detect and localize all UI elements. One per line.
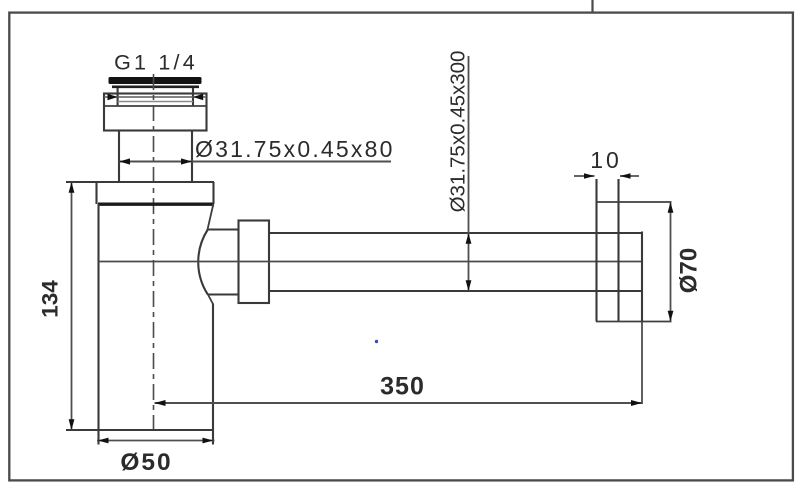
body flange left edge: [95, 182, 97, 204]
dim arrow right (tip at tailpipe right): [181, 158, 192, 164]
body flange top line with 134 extension: [66, 181, 214, 183]
svg-text:Ø31.75x0.45x300: Ø31.75x0.45x300: [447, 51, 470, 213]
wall flange bottom edge with Ø70 extension: [596, 321, 672, 323]
svg-text:Ø50: Ø50: [120, 449, 172, 476]
svg-text:Ø31.75x0.45x80: Ø31.75x0.45x80: [195, 136, 395, 162]
body left edge: [97, 204, 99, 445]
svg-text:Ø70: Ø70: [676, 248, 703, 293]
dim 134 arrow up: [69, 182, 75, 193]
cap washer line: [112, 86, 199, 89]
dim Ø31.75x0.45x300 vertical line: [468, 56, 470, 291]
dim 134 line: [71, 182, 73, 430]
dim Ø50 arrow left: [98, 438, 109, 444]
body flange thick bottom line: [98, 202, 213, 205]
tailpipe left edge: [118, 131, 120, 183]
olive upper slant: [207, 206, 213, 231]
dim 350 arrow right: [631, 400, 642, 406]
dim Ø50 arrow right: [203, 438, 214, 444]
olive left arc: [198, 230, 208, 295]
svg-text:10: 10: [590, 147, 622, 173]
body right edge upper: [212, 204, 214, 207]
thread root line: [118, 101, 193, 103]
tailpipe right edge: [191, 131, 193, 183]
dim arrow up (pipe top): [466, 233, 472, 244]
vertical centerline (dashed): [153, 74, 155, 430]
dim 134 arrow down: [69, 419, 75, 430]
extension line to 350 dim: [641, 322, 643, 404]
dim Ø50 line: [97, 440, 215, 442]
svg-text:134: 134: [38, 280, 63, 318]
body flange right edge: [212, 182, 214, 204]
dim Ø70 line: [670, 202, 672, 322]
pipe bottom edge: [269, 290, 642, 292]
dim 350 line: [155, 402, 643, 404]
wall flange back face: [617, 179, 619, 322]
body right edge lower: [212, 304, 214, 445]
pipe centerline: [99, 261, 643, 263]
olive lower slant: [207, 294, 213, 305]
thread dim arrow left: [108, 94, 118, 100]
dim 10 arrow left: [584, 173, 595, 179]
svg-text:G1 1/4: G1 1/4: [114, 51, 198, 75]
wall flange top edge with Ø70 extension: [596, 201, 672, 203]
dim line Ø31.75x0.45x80: [119, 161, 391, 163]
cap top black bar: [109, 77, 202, 84]
cap neck right edge: [192, 88, 194, 106]
dim 10 left segment: [574, 175, 595, 177]
svg-text:350: 350: [380, 373, 425, 401]
pipe top edge: [269, 232, 642, 234]
olive bottom edge: [208, 293, 239, 295]
dim 10 right segment: [620, 175, 639, 177]
olive top edge: [208, 228, 239, 230]
pipe nut: [239, 221, 270, 304]
dim arrow down (pipe bottom): [466, 280, 472, 291]
pipe end edge: [641, 232, 643, 323]
thread dimension line: [104, 96, 207, 98]
body bottom line with extension: [66, 429, 214, 431]
dim arrow left (tip at tailpipe left): [119, 158, 130, 164]
blue speck artifact: [375, 340, 378, 343]
thread dim arrow right: [193, 94, 203, 100]
title block remnant tick: [591, 0, 593, 13]
dim 10 arrow right: [620, 173, 631, 179]
dim Ø70 arrow up: [668, 202, 674, 213]
dim 350 arrow left: [155, 400, 166, 406]
wall flange front face: [595, 179, 597, 322]
cap neck left edge: [117, 88, 119, 106]
cap nut body: [104, 94, 207, 131]
cap nut internal line: [104, 105, 207, 107]
dim Ø70 arrow down: [668, 311, 674, 322]
